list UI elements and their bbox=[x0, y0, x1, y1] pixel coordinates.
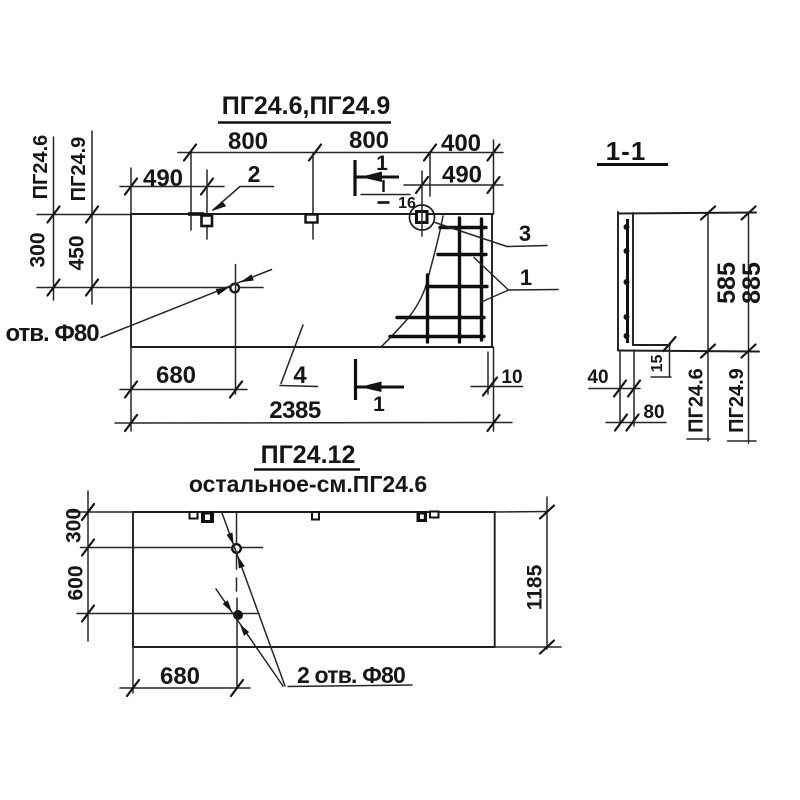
mesh horizontal bar 1 bbox=[440, 226, 486, 229]
svg-text:1-1: 1-1 bbox=[606, 136, 647, 166]
svg-text:1185: 1185 bbox=[524, 564, 547, 610]
svg-text:10: 10 bbox=[501, 367, 522, 388]
svg-text:490: 490 bbox=[442, 162, 482, 189]
tick bbox=[540, 641, 554, 654]
svg-text:400: 400 bbox=[441, 130, 481, 157]
section bottom edge / extension bbox=[618, 351, 759, 352]
svg-text:2: 2 bbox=[248, 161, 261, 187]
svg-text:585: 585 bbox=[713, 262, 741, 304]
mesh horizontal bar 2 bbox=[438, 253, 486, 256]
dim 490 right line bbox=[404, 184, 503, 186]
left chain line PG24.9 bbox=[91, 131, 93, 304]
tick bbox=[416, 177, 428, 193]
rebar dot bbox=[624, 333, 630, 339]
mesh horizontal bar 4 bbox=[397, 316, 484, 319]
rebar dot bbox=[624, 279, 630, 285]
tick bbox=[125, 382, 137, 398]
hole centerline (top part) bbox=[236, 512, 238, 569]
tick bbox=[488, 145, 500, 161]
underline bbox=[687, 438, 710, 440]
arrowhead into hole2 from above bbox=[223, 600, 232, 612]
label 3 bbox=[435, 221, 547, 247]
left chain line PG24.6 bbox=[53, 137, 55, 300]
svg-text:ПГ24.6,ПГ24.9: ПГ24.6,ПГ24.9 bbox=[222, 92, 391, 120]
loop dark square left bbox=[201, 511, 214, 523]
tick bbox=[82, 540, 94, 556]
dim 490 left line bbox=[120, 186, 224, 188]
section mark 1 (top) bbox=[355, 152, 410, 196]
svg-text:ПГ24.9: ПГ24.9 bbox=[726, 368, 748, 433]
svg-text:3: 3 bbox=[519, 221, 531, 246]
tick bbox=[701, 345, 715, 358]
svg-text:1: 1 bbox=[376, 152, 388, 175]
mesh horizontal bar 5 bbox=[390, 335, 484, 338]
svg-text:остальное-см.ПГ24.6: остальное-см.ПГ24.6 bbox=[189, 471, 427, 497]
svg-text:ПГ24.6: ПГ24.6 bbox=[30, 135, 52, 200]
dim 680 line bbox=[120, 687, 250, 689]
section mark 1 (bottom) bbox=[356, 359, 405, 416]
tick bbox=[125, 415, 137, 431]
hole 1 bbox=[232, 544, 241, 553]
dim line 585 bbox=[707, 213, 709, 441]
mesh vertical bar 2 bbox=[458, 218, 461, 342]
tick bbox=[488, 177, 500, 193]
left chain line bbox=[87, 491, 89, 641]
rebar dot bbox=[624, 248, 630, 254]
svg-text:80: 80 bbox=[643, 402, 664, 423]
tick bbox=[201, 179, 213, 195]
svg-text:ПГ24.9: ПГ24.9 bbox=[68, 137, 90, 202]
svg-text:ПГ24.6: ПГ24.6 bbox=[686, 368, 708, 433]
svg-text:600: 600 bbox=[65, 565, 88, 600]
tick bbox=[127, 680, 139, 696]
loop dark square right bbox=[417, 511, 428, 522]
hole centerline dash bbox=[236, 578, 238, 591]
dim 2385 line bbox=[115, 422, 512, 425]
svg-text:300: 300 bbox=[63, 508, 86, 543]
tick bbox=[48, 207, 60, 223]
tick bbox=[230, 382, 242, 398]
dim 80 bbox=[606, 402, 666, 431]
svg-text:1: 1 bbox=[520, 265, 532, 290]
tick bbox=[48, 280, 60, 296]
tick bbox=[86, 207, 98, 223]
svg-text:1: 1 bbox=[373, 393, 385, 416]
extension line at 430 bbox=[429, 153, 431, 197]
svg-text:490: 490 bbox=[143, 165, 183, 192]
loop small square left bbox=[190, 512, 198, 519]
hole centerline bbox=[235, 265, 237, 395]
tick bbox=[742, 207, 756, 220]
svg-text:2 отв. Ф80: 2 отв. Ф80 bbox=[297, 662, 405, 688]
slab left edge extension bbox=[130, 168, 132, 431]
leader diagonal B bbox=[216, 589, 283, 686]
hole leader diagonal bbox=[101, 270, 272, 338]
dim 40 bbox=[587, 350, 640, 426]
dim 680 line bbox=[120, 389, 247, 391]
dim chain 800-800-400 line bbox=[178, 152, 503, 154]
tick bbox=[424, 145, 436, 161]
hole (otv. F80) bbox=[230, 284, 239, 293]
tick bbox=[742, 345, 756, 358]
svg-text:450: 450 bbox=[66, 235, 89, 270]
section outline bbox=[617, 212, 619, 350]
arrowhead into hole2 from below bbox=[240, 624, 249, 636]
mesh horizontal bar 3 bbox=[427, 285, 487, 288]
slab right edge extension lower bbox=[493, 347, 495, 431]
svg-text:680: 680 bbox=[156, 362, 196, 389]
svg-text:300: 300 bbox=[27, 232, 50, 267]
section wall right face bbox=[632, 213, 634, 345]
label 4 bbox=[280, 325, 318, 389]
dim 15 bbox=[649, 337, 676, 377]
loop small square right bbox=[430, 512, 439, 518]
title PG24.12 bbox=[254, 441, 360, 470]
svg-text:680: 680 bbox=[160, 663, 200, 690]
label 2 bbox=[212, 161, 274, 211]
circled loop (detail mark) bbox=[410, 171, 435, 236]
arrowhead into hole1 from above bbox=[227, 533, 234, 545]
hole 2 (dark) bbox=[233, 610, 243, 620]
svg-text:ПГ24.12: ПГ24.12 bbox=[261, 441, 356, 469]
tick bbox=[82, 606, 94, 622]
tick bbox=[540, 506, 554, 519]
extension line at 191 bbox=[190, 153, 192, 231]
mesh vertical bar 3 bbox=[480, 219, 483, 340]
hole centerline (bottom part) bbox=[236, 598, 238, 688]
hole level line 1 bbox=[81, 547, 263, 549]
title PG24.6,PG24.9 bbox=[218, 92, 391, 123]
label 2 otv. F80 bbox=[288, 662, 412, 688]
slab outline (plan) bbox=[131, 214, 492, 347]
arrowhead to hole (from lower-left) bbox=[216, 287, 229, 295]
lifting loop middle: eye square bbox=[306, 215, 318, 223]
svg-text:40: 40 bbox=[587, 367, 608, 388]
extension slab right top bbox=[493, 140, 495, 214]
extension line at 313 bbox=[312, 153, 314, 240]
leader diagonal A bbox=[222, 513, 285, 686]
label 1 (mesh) bbox=[474, 258, 558, 302]
slab outline (PG24.12) bbox=[133, 512, 495, 647]
section ledge bbox=[633, 344, 670, 346]
svg-text:800: 800 bbox=[228, 128, 268, 155]
extension line at 207 bbox=[206, 170, 208, 239]
lifting loop left: embed line bbox=[188, 212, 204, 216]
arrowhead into hole1 from below bbox=[238, 556, 245, 568]
section top edge / extension bbox=[618, 213, 756, 214]
rebar in section bbox=[626, 219, 629, 343]
loop middle square bbox=[312, 512, 319, 520]
top edge extension right bbox=[495, 511, 548, 514]
svg-text:4: 4 bbox=[293, 362, 307, 389]
svg-text:800: 800 bbox=[349, 127, 389, 154]
underline bbox=[728, 440, 757, 442]
tick bbox=[488, 415, 500, 431]
rebar dot bbox=[624, 224, 630, 230]
svg-text:15: 15 bbox=[649, 355, 666, 373]
tick bbox=[184, 145, 196, 161]
tick bbox=[701, 207, 715, 220]
mesh cut boundary bbox=[381, 216, 443, 347]
hole level line bbox=[37, 287, 263, 289]
slab left edge extension (bottom drawing) bbox=[132, 647, 134, 693]
mesh vertical bar 1 bbox=[426, 275, 429, 342]
minus 16 note bbox=[378, 195, 417, 212]
title 1-1 bbox=[597, 136, 668, 166]
arrowhead to hole (from upper-right) bbox=[241, 274, 254, 282]
bottom edge extension right bbox=[495, 646, 561, 648]
tick bbox=[125, 179, 137, 195]
rebar dot bbox=[624, 314, 630, 320]
dim 10 bbox=[471, 352, 523, 396]
svg-text:16: 16 bbox=[398, 195, 416, 212]
lifting loop left: eye square bbox=[202, 216, 213, 227]
tick bbox=[309, 145, 321, 161]
top edge extension left bbox=[68, 511, 134, 513]
tick bbox=[86, 280, 98, 296]
svg-text:2385: 2385 bbox=[269, 397, 321, 424]
dim 1185 line bbox=[546, 497, 548, 649]
dim line 885 bbox=[748, 212, 750, 443]
svg-text:885: 885 bbox=[738, 262, 766, 304]
hole level line 2 bbox=[77, 613, 259, 615]
top edge extension left bbox=[37, 214, 131, 216]
svg-text:отв. Ф80: отв. Ф80 bbox=[5, 320, 99, 347]
tick bbox=[82, 504, 94, 520]
tick bbox=[231, 680, 243, 696]
